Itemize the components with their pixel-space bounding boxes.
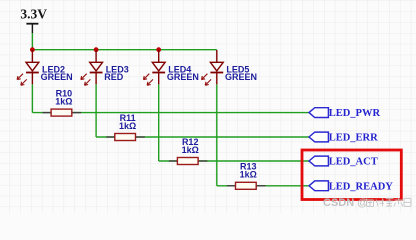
- resistor R13: [227, 182, 266, 189]
- watermark CSDN: [323, 197, 412, 210]
- port LED_READY: [309, 181, 393, 193]
- port LED_PWR: [309, 108, 380, 120]
- svg-text:RED: RED: [104, 72, 124, 82]
- wire: power stem green: [31, 33, 33, 50]
- svg-text:1kΩ: 1kΩ: [55, 96, 72, 106]
- svg-text:1kΩ: 1kΩ: [119, 121, 136, 131]
- LED LED4 (GREEN): [143, 50, 165, 85]
- junction dot at power/bus: [30, 47, 35, 52]
- LED LED2 (GREEN): [17, 50, 39, 85]
- LED LED5 (GREEN): [202, 50, 224, 85]
- port LED_ACT: [309, 156, 378, 168]
- wire: row 3 to LED_ACT: [159, 160, 309, 162]
- svg-text:1kΩ: 1kΩ: [240, 170, 257, 180]
- wire: row 4 to LED_READY: [217, 185, 309, 187]
- svg-text:3.3V: 3.3V: [20, 6, 47, 21]
- wire: row 1 to LED_PWR: [32, 112, 309, 114]
- svg-text:1kΩ: 1kΩ: [182, 145, 199, 155]
- wire: row 2 to LED_ERR: [96, 136, 309, 138]
- junction dot column2: [94, 47, 99, 52]
- red highlight rectangle: [302, 150, 401, 200]
- wire: column 2 below LED3: [95, 84, 97, 137]
- svg-text:GREEN: GREEN: [41, 72, 73, 82]
- svg-text:CSDN @: CSDN @: [323, 197, 368, 209]
- wire: column 4 below LED5: [216, 84, 218, 186]
- resistor R12: [169, 158, 208, 165]
- LED LED3 (RED): [81, 50, 103, 85]
- svg-text:GREEN: GREEN: [167, 72, 199, 82]
- wire: top bus: [32, 49, 216, 51]
- wire: column 3 below LED4: [158, 84, 160, 161]
- power port 3.3V: [20, 6, 47, 33]
- svg-text:GREEN: GREEN: [225, 72, 257, 82]
- junction dot column3: [156, 47, 161, 52]
- resistor R10: [43, 109, 82, 116]
- svg-text:LED_READY: LED_READY: [329, 181, 394, 192]
- svg-text:LED_ERR: LED_ERR: [329, 133, 378, 144]
- svg-text:LED_PWR: LED_PWR: [329, 108, 381, 119]
- wire: column 1 below LED2: [31, 84, 33, 112]
- svg-text:LED_ACT: LED_ACT: [329, 157, 378, 168]
- port LED_ERR: [309, 132, 378, 144]
- resistor R11: [106, 134, 145, 141]
